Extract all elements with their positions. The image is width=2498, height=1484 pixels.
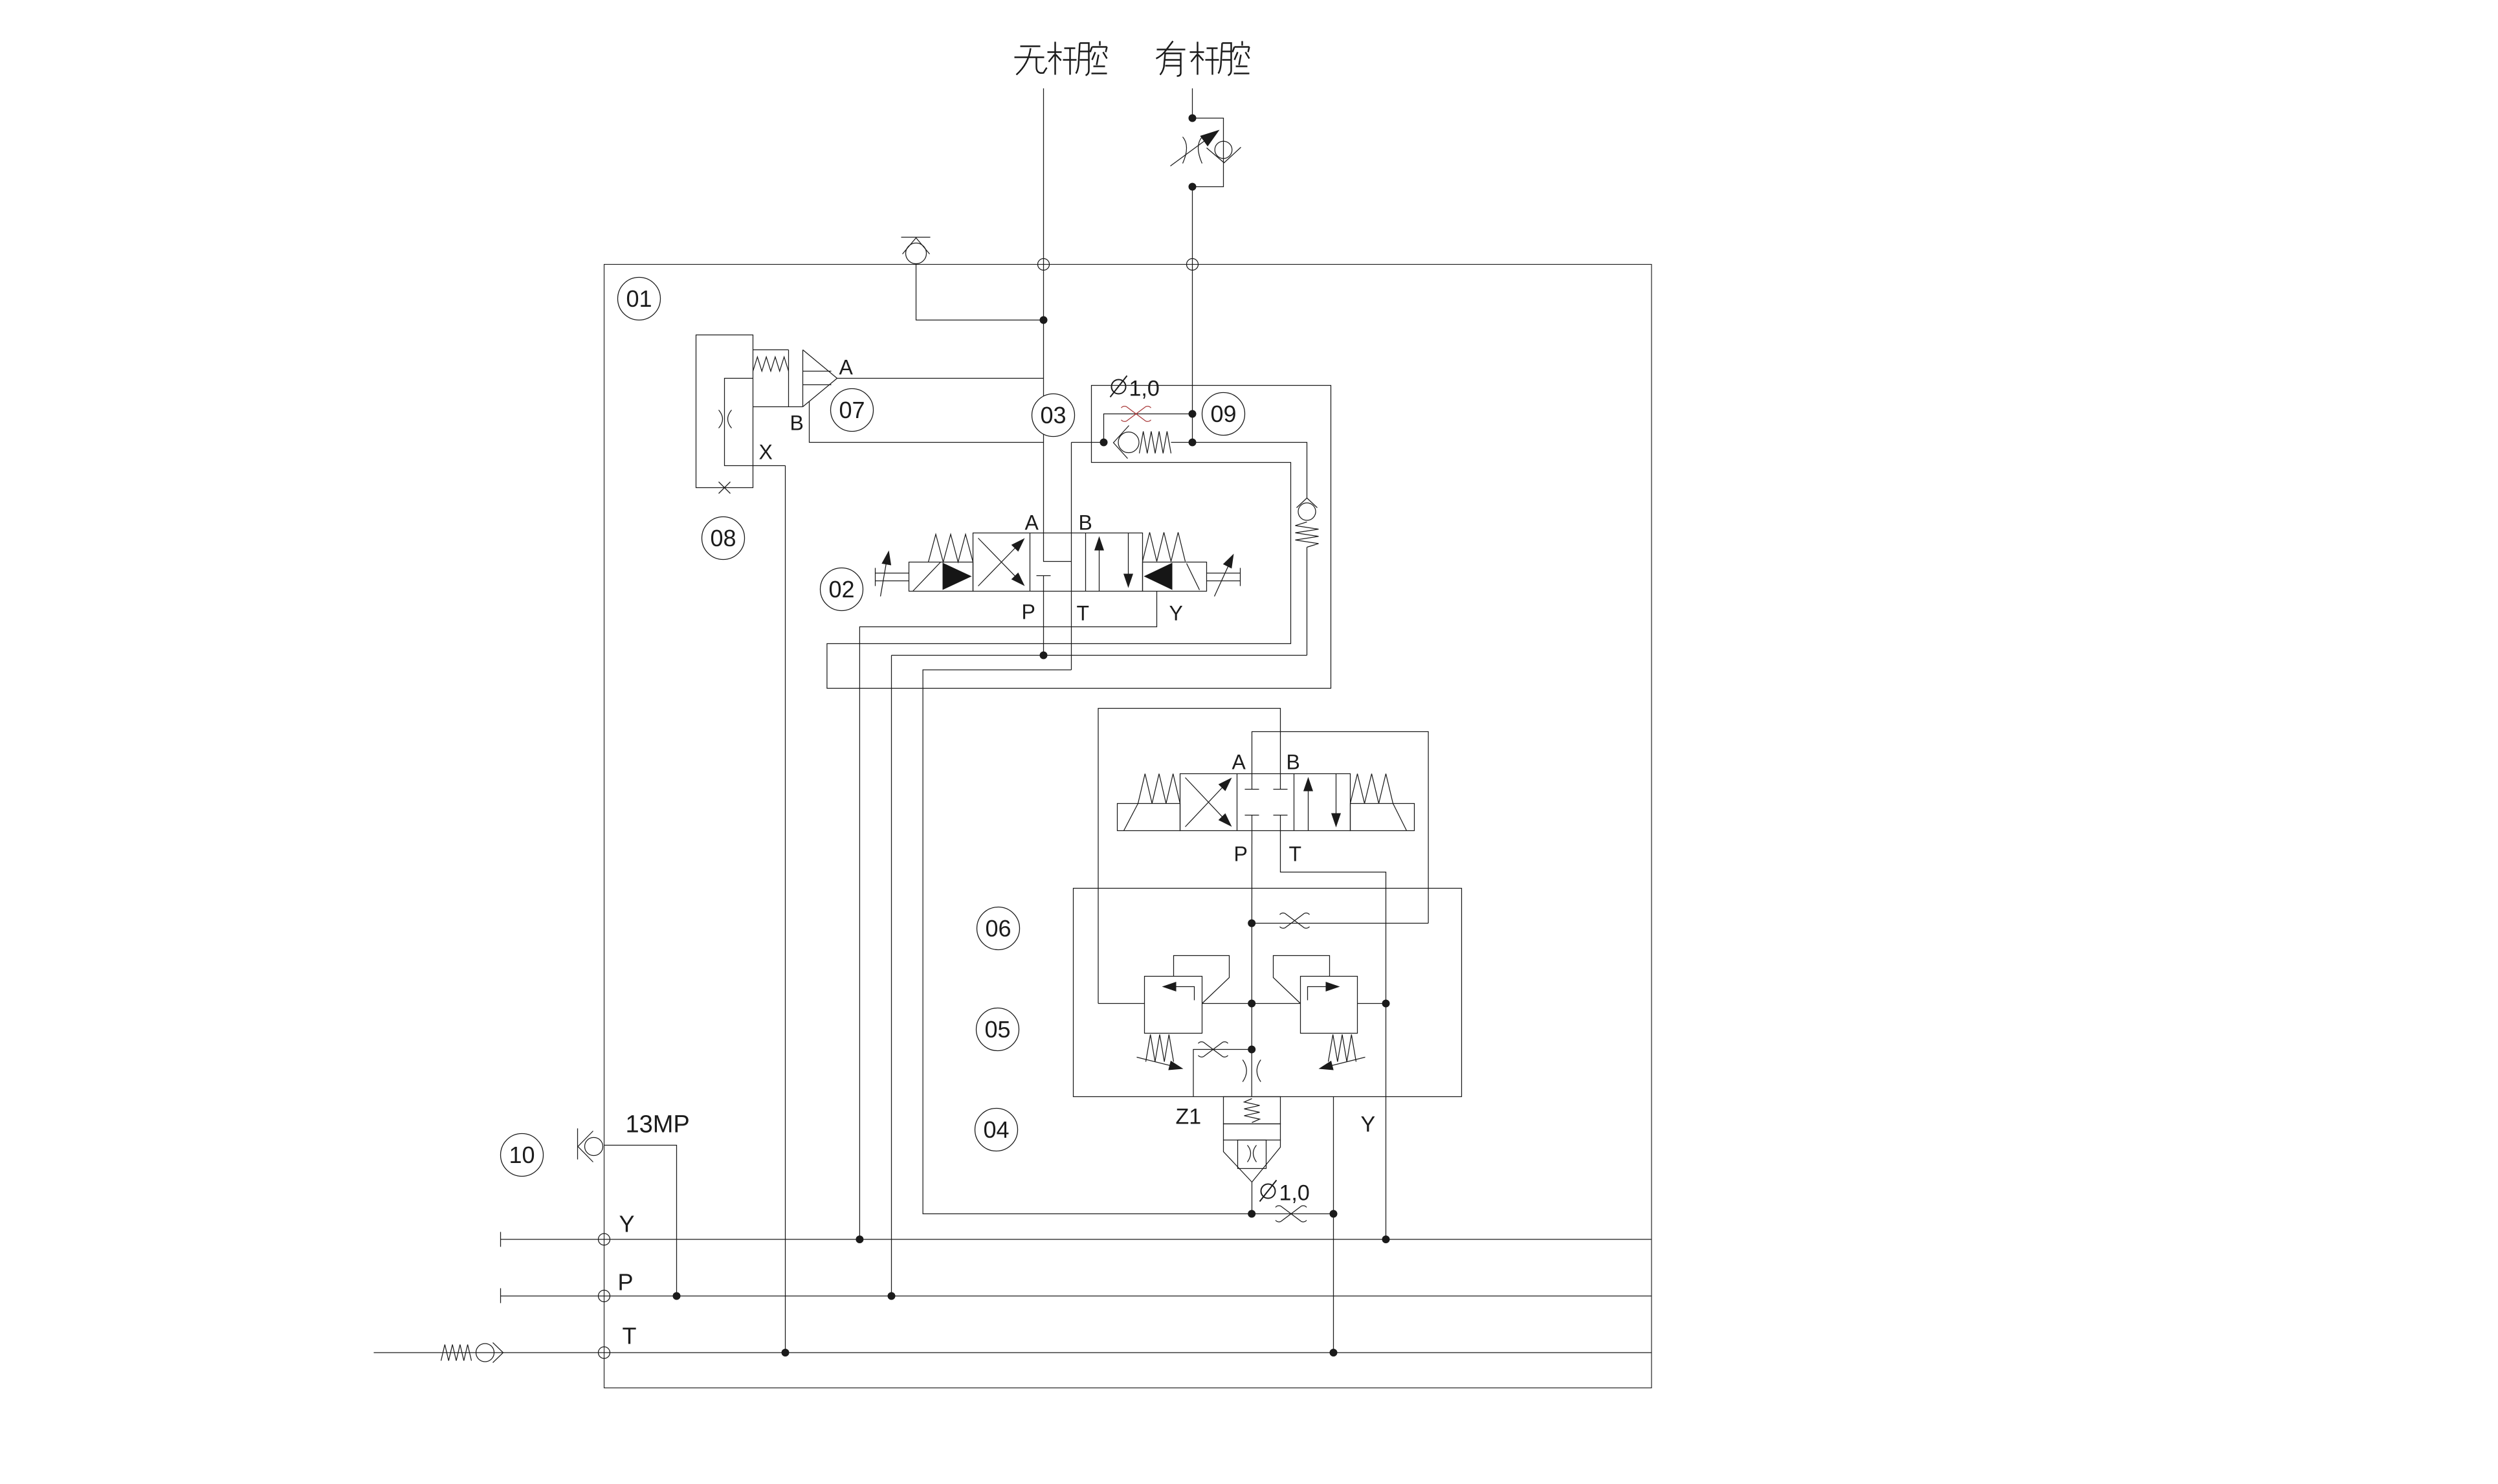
svg-text:04: 04 bbox=[983, 1116, 1009, 1143]
balloon 09 bbox=[1202, 393, 1245, 436]
wire P02 junction line bbox=[892, 655, 1307, 656]
balloon 05 bbox=[977, 1008, 1019, 1051]
svg-text:01: 01 bbox=[626, 285, 652, 312]
node T02/Z1 drain bbox=[1248, 1210, 1255, 1217]
wire drain vertical to T rail bbox=[1333, 1097, 1334, 1214]
wire P06 central line bbox=[1251, 831, 1252, 1097]
svg-text:06: 06 bbox=[985, 915, 1011, 942]
valve02 left spring bbox=[929, 535, 973, 562]
check valve with spring on T line bbox=[441, 1343, 503, 1363]
svg-text:A: A bbox=[1025, 511, 1039, 535]
svg-text:A: A bbox=[839, 356, 854, 379]
label phi1,0 (04) bbox=[1260, 1180, 1277, 1202]
pilot-operated check valve body 08 bbox=[696, 335, 753, 488]
node junction vent/A-line bbox=[1040, 316, 1047, 324]
svg-text:P: P bbox=[1234, 843, 1248, 866]
port circle rod line on border bbox=[1187, 259, 1199, 271]
rail P bbox=[501, 1296, 1652, 1297]
check valve 09 bbox=[1114, 426, 1193, 459]
svg-text:B: B bbox=[1287, 751, 1300, 774]
envelope loop 09 bbox=[827, 386, 1331, 689]
valve06 left spring bbox=[1138, 774, 1180, 804]
svg-text:02: 02 bbox=[828, 576, 854, 603]
rail Y port circle on border bbox=[599, 1234, 610, 1245]
orifice symbol phi1.0 (red) bbox=[1127, 406, 1146, 421]
check valve 07 poppet bbox=[803, 350, 837, 407]
flow control valve (throttle with bypass check) bbox=[1171, 115, 1241, 190]
balloon 08 bbox=[702, 517, 745, 560]
rail Y bbox=[501, 1239, 1652, 1240]
valve02 right position arrows bbox=[1099, 540, 1100, 592]
valve06 left solenoid bbox=[1118, 804, 1180, 831]
valve02 left position crossed arrows bbox=[978, 542, 1022, 586]
vent check valve on top border bbox=[901, 238, 931, 264]
orifice symbol on A06 line bbox=[1285, 913, 1305, 928]
label phi1,0 (09) bbox=[1111, 376, 1127, 397]
valve02 right spring bbox=[1143, 533, 1186, 562]
svg-text:Y: Y bbox=[1361, 1113, 1376, 1137]
svg-text:Y: Y bbox=[1169, 602, 1183, 625]
svg-text:X: X bbox=[759, 441, 773, 464]
valve02 left proportional solenoid bbox=[909, 562, 973, 592]
envelope loop 04/05 bbox=[1074, 889, 1462, 1097]
svg-text:Y: Y bbox=[619, 1211, 635, 1237]
port circle rodless line on border bbox=[1038, 259, 1050, 271]
valve06 centre position blocked ports bbox=[1245, 774, 1259, 790]
check valve 07 spring bbox=[753, 349, 789, 351]
wire rod-chamber line upper (x=1842) bbox=[1192, 89, 1193, 118]
svg-text:08: 08 bbox=[710, 525, 736, 551]
svg-text:B: B bbox=[1079, 511, 1092, 535]
node check09/rod-line bbox=[1100, 439, 1107, 446]
balloon 07 bbox=[831, 389, 874, 432]
valve02 right pin and adjust arrow bbox=[1207, 568, 1241, 586]
svg-text:03: 03 bbox=[1040, 402, 1066, 428]
valve02 right proportional solenoid bbox=[1143, 562, 1207, 592]
node relief/T06-drain bbox=[1382, 1000, 1389, 1007]
rail T port circle on border bbox=[599, 1347, 610, 1358]
rail T bbox=[374, 1352, 1652, 1353]
wire rod-chamber line lower bbox=[1192, 187, 1193, 443]
svg-text:T: T bbox=[1289, 843, 1302, 866]
directional valve 02 body bbox=[973, 533, 1143, 592]
pilot drain line with orifice bbox=[1193, 1050, 1252, 1097]
valve06 left position crossed arrows bbox=[1186, 781, 1229, 827]
pressure gauge 13MP (10) bbox=[578, 1129, 603, 1162]
node P02 bbox=[1040, 652, 1047, 659]
label 有杆腔 (rod chamber) bbox=[1156, 41, 1250, 76]
wire relief port line bbox=[1098, 1003, 1145, 1004]
balloon 04 bbox=[975, 1109, 1018, 1151]
wire P02 stem bbox=[1043, 592, 1045, 656]
balloon 03 bbox=[1032, 394, 1075, 437]
wire gauge branch to P rail bbox=[604, 1146, 677, 1296]
check valve P-bypass bbox=[1296, 498, 1319, 656]
svg-text:P: P bbox=[1022, 601, 1035, 624]
throttle in pilot line 08 bbox=[719, 410, 723, 428]
node P06/pilot-drain bbox=[1248, 1046, 1255, 1053]
svg-text:T: T bbox=[1077, 602, 1090, 625]
balloon 10 bbox=[501, 1134, 544, 1177]
svg-text:1,0: 1,0 bbox=[1129, 377, 1160, 401]
svg-text:T: T bbox=[623, 1323, 637, 1349]
label 无杆腔 (rodless chamber) bbox=[1015, 41, 1107, 76]
node P06/orifice bbox=[1248, 920, 1255, 927]
svg-text:A: A bbox=[1232, 751, 1246, 774]
svg-text:05: 05 bbox=[984, 1016, 1010, 1043]
valve02 centre position bbox=[1044, 533, 1072, 562]
valve06 right position arrows bbox=[1308, 781, 1309, 831]
orifice line at relief inlet bbox=[1252, 923, 1428, 924]
wire X pilot down to T rail bbox=[785, 466, 786, 1353]
wire rodless-chamber line A (x=1612) bbox=[1043, 89, 1045, 533]
valve06 right solenoid bbox=[1351, 804, 1415, 831]
svg-text:P: P bbox=[618, 1269, 634, 1296]
node relief/P06 bbox=[1248, 1000, 1255, 1007]
valve06 right spring bbox=[1351, 774, 1393, 804]
wire Y02 to Y rail bbox=[859, 592, 1156, 1240]
svg-text:Z1: Z1 bbox=[1176, 1105, 1202, 1129]
node orifice/rod-line bbox=[1189, 410, 1196, 417]
svg-text:1,0: 1,0 bbox=[1279, 1181, 1310, 1206]
relief 05 left spring with adjust arrow bbox=[1146, 1035, 1174, 1062]
svg-text:B: B bbox=[790, 412, 804, 435]
rail P port circle on border bbox=[599, 1290, 610, 1302]
relief 05 right pilot collar bbox=[1274, 956, 1330, 1004]
relief 05 left pilot collar bbox=[1174, 956, 1230, 1004]
balloon 01 bbox=[618, 278, 661, 320]
wire T06 to Y rail bbox=[1281, 831, 1386, 1240]
check valve 07 piston bbox=[788, 350, 790, 407]
relief valve 05 left body bbox=[1145, 977, 1202, 1034]
directional valve 06 body bbox=[1180, 774, 1351, 831]
wire B02 top link bbox=[1072, 442, 1104, 443]
throttle on P06 line bbox=[1243, 1060, 1246, 1082]
pilot piston chamber 08 bbox=[725, 379, 786, 466]
svg-text:13MP: 13MP bbox=[626, 1111, 690, 1138]
wire P-line down to P rail bbox=[891, 656, 892, 1296]
svg-text:07: 07 bbox=[839, 397, 865, 423]
orifice symbol pilot drain bbox=[1204, 1042, 1223, 1057]
balloon 06 bbox=[977, 907, 1020, 950]
valve02 left pin and adjust arrow bbox=[876, 568, 909, 586]
manifold block border bbox=[604, 265, 1652, 1388]
plugged pilot port x-mark bbox=[719, 482, 731, 494]
relief 05 right spring with adjust arrow bbox=[1329, 1035, 1356, 1062]
wire A07 to rodless line bbox=[837, 378, 1044, 379]
orifice line phi1.0 (09) bbox=[1104, 414, 1193, 443]
svg-text:09: 09 bbox=[1210, 401, 1236, 427]
cartridge valve Z1 (04) bbox=[1224, 1097, 1281, 1214]
node drain/vertical bbox=[1330, 1210, 1337, 1217]
wire T02 staircase bbox=[923, 670, 1252, 1214]
balloon 02 bbox=[821, 568, 863, 611]
wire B07 bbox=[810, 402, 1044, 443]
wire B06 to left relief bbox=[1098, 709, 1281, 1004]
orifice symbol phi1.0 (04) bbox=[1281, 1206, 1301, 1222]
wire rod-line to P-bypass check bbox=[1193, 443, 1307, 499]
wire vent check to node bbox=[916, 265, 1044, 320]
drain orifice line phi1.0 (04) bbox=[1252, 1213, 1333, 1215]
relief valve 05 right body bbox=[1301, 977, 1358, 1034]
svg-text:10: 10 bbox=[509, 1142, 535, 1168]
wire B/T line through valve02 bbox=[1071, 443, 1072, 670]
wire A06 loop to orifice line bbox=[1252, 732, 1429, 924]
